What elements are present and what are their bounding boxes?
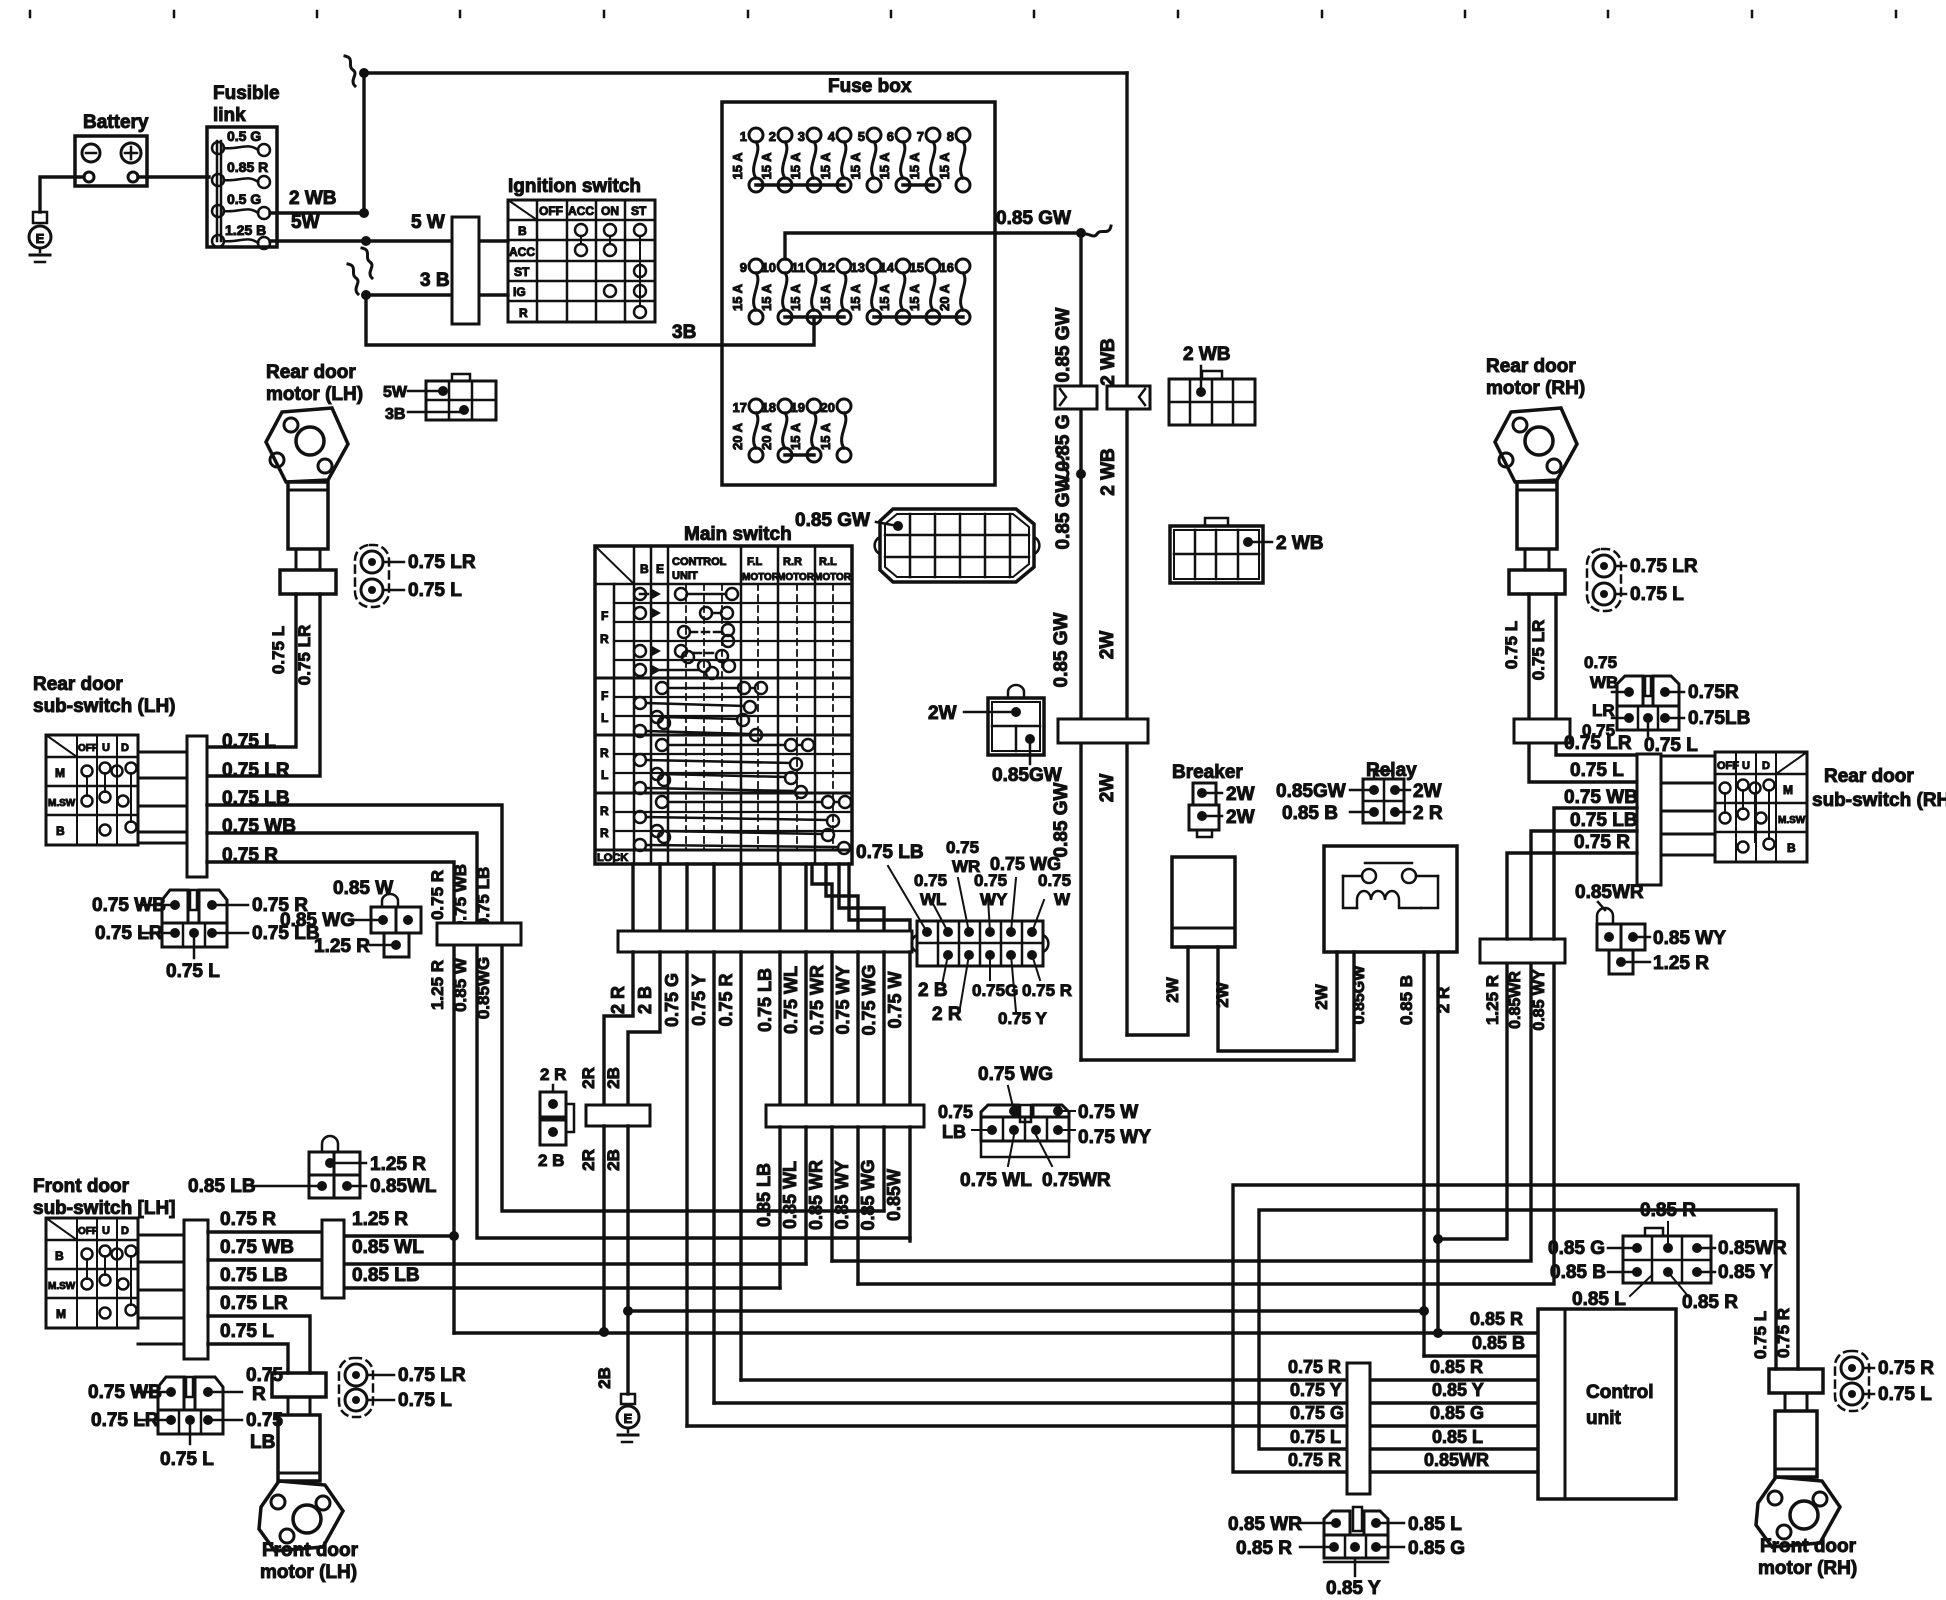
svg-text:0.85 WL: 0.85 WL	[352, 1237, 424, 1258]
svg-text:0.85 R: 0.85 R	[1430, 1357, 1483, 1377]
rear door sub-switch RH	[1715, 752, 1807, 862]
svg-text:0.85WG: 0.85WG	[474, 957, 493, 1019]
rear door motor RH	[1495, 408, 1577, 482]
inline connector 2WB	[1107, 386, 1150, 409]
fusible link element 3	[212, 205, 224, 217]
svg-text:15 A: 15 A	[907, 283, 922, 311]
svg-text:15 A: 15 A	[818, 422, 833, 450]
wire 0.75LR motor LH	[207, 594, 320, 776]
fusible link element 2	[212, 174, 224, 186]
svg-text:IG: IG	[513, 285, 526, 299]
fuse bus 1-4	[756, 183, 844, 187]
wire main switch 2 R to connector	[631, 864, 634, 931]
svg-text:2 B: 2 B	[635, 986, 655, 1014]
svg-text:2W: 2W	[928, 703, 957, 724]
svg-text:20 A: 20 A	[759, 422, 774, 450]
svg-text:motor (LH): motor (LH)	[266, 384, 363, 405]
wire main switch 0.75 W jog	[849, 864, 910, 931]
wire 0.85 WG below bar	[882, 1127, 885, 1210]
svg-text:ST: ST	[514, 265, 530, 279]
break curl 0.85GW mid	[1058, 456, 1068, 486]
svg-text:16: 16	[940, 260, 954, 275]
wire 2B jog down	[628, 952, 660, 1105]
svg-text:0.85 GW: 0.85 GW	[795, 510, 870, 531]
fuse bus 18-19	[785, 453, 814, 457]
svg-text:Front door: Front door	[1760, 1536, 1857, 1557]
wire main switch 2 B to connector	[658, 864, 661, 931]
wire run 0.85WY right	[858, 963, 1554, 1284]
fuse 13	[867, 259, 881, 273]
svg-text:0.85 WL: 0.85 WL	[780, 1161, 800, 1229]
wire fuse10 riser 0.85GW	[785, 233, 1081, 259]
svg-text:15 A: 15 A	[848, 152, 863, 180]
svg-text:15 A: 15 A	[937, 152, 952, 180]
relay connector	[1363, 779, 1404, 823]
svg-text:F: F	[601, 609, 608, 623]
wire 0.75L front LH	[208, 1344, 288, 1373]
svg-text:OFF: OFF	[78, 743, 98, 754]
svg-text:15 A: 15 A	[877, 152, 892, 180]
svg-text:15 A: 15 A	[788, 152, 803, 180]
connector 3pin rear RH	[1617, 676, 1643, 706]
wire loop R2 control to motorRH L	[1259, 1210, 1776, 1449]
svg-text:0.75 L: 0.75 L	[160, 1449, 214, 1470]
svg-text:2B: 2B	[604, 1149, 623, 1171]
wire main switch 0.75 R to connector	[739, 864, 742, 931]
node 0.85GW junction	[1076, 228, 1086, 238]
svg-text:D: D	[121, 742, 129, 754]
svg-text:2W: 2W	[1226, 784, 1255, 805]
svg-text:0.75 L: 0.75 L	[166, 961, 220, 982]
wire 2R jog down	[604, 952, 633, 1105]
connector pair front LH	[339, 1358, 373, 1417]
wire breaker 2W right	[1218, 947, 1337, 1051]
svg-text:5W: 5W	[383, 384, 408, 401]
svg-text:L: L	[601, 768, 608, 782]
svg-text:0.75 L: 0.75 L	[1290, 1427, 1341, 1447]
svg-text:E: E	[36, 231, 45, 246]
svg-text:2 R: 2 R	[1413, 803, 1443, 824]
svg-text:2W: 2W	[1163, 976, 1182, 1002]
svg-text:sub-switch (LH): sub-switch (LH)	[33, 696, 176, 717]
svg-text:2 WB: 2 WB	[1183, 344, 1231, 365]
fuse 17	[749, 399, 763, 413]
svg-text:R: R	[600, 804, 609, 818]
svg-text:0.75 Y: 0.75 Y	[998, 1009, 1048, 1028]
svg-text:Battery: Battery	[83, 112, 149, 133]
wire link 1.25R-2R	[1438, 963, 1507, 1239]
wire 0.85 WY vertical	[856, 952, 859, 1105]
wire 0.85W below bar	[908, 1127, 911, 1241]
fuse 5	[867, 128, 881, 142]
svg-text:0.85 G: 0.85 G	[1548, 1238, 1605, 1259]
svg-text:0.75 WB: 0.75 WB	[222, 816, 296, 837]
svg-text:15 A: 15 A	[818, 283, 833, 311]
svg-text:0.75 LB: 0.75 LB	[1570, 810, 1638, 831]
fuse 16	[956, 259, 970, 273]
svg-text:0.75 G: 0.75 G	[1290, 1403, 1344, 1423]
svg-text:E: E	[624, 1411, 633, 1426]
svg-text:15 A: 15 A	[788, 283, 803, 311]
wire main switch 0.75 WG jog	[839, 864, 884, 931]
wire stub sub-switch RH	[1661, 833, 1715, 836]
svg-text:5: 5	[858, 129, 865, 144]
wire 2B below bar3	[626, 1126, 629, 1394]
wire 0.85 WL vertical	[804, 952, 807, 1105]
svg-text:0.75: 0.75	[914, 871, 947, 890]
svg-text:15 A: 15 A	[730, 283, 745, 311]
svg-text:20: 20	[821, 400, 835, 415]
fuse 3	[807, 128, 821, 142]
svg-text:2W: 2W	[1312, 983, 1331, 1009]
svg-text:0.5 G: 0.5 G	[227, 191, 261, 207]
wire 0.75WB rear RH	[1554, 808, 1637, 939]
fuse 14	[896, 259, 910, 273]
main switch contacts	[634, 588, 646, 600]
svg-text:OFF: OFF	[539, 204, 563, 218]
svg-text:0.75 G: 0.75 G	[662, 973, 682, 1027]
svg-text:0.85 GW: 0.85 GW	[1053, 474, 1074, 549]
wire 0.75G run to control	[687, 1424, 1538, 1427]
svg-text:12: 12	[821, 260, 835, 275]
svg-text:8: 8	[947, 129, 954, 144]
ignition switch contacts	[575, 224, 587, 236]
svg-text:B: B	[518, 224, 527, 238]
svg-text:MOTOR: MOTOR	[742, 572, 780, 583]
svg-text:D: D	[121, 1225, 129, 1237]
svg-text:0.85 B: 0.85 B	[1472, 1333, 1525, 1353]
svg-text:R: R	[600, 632, 609, 646]
wire main switch 0.75 WR jog	[812, 864, 832, 931]
connector 2W	[988, 698, 1044, 755]
svg-text:3B: 3B	[385, 406, 405, 423]
svg-text:motor (RH): motor (RH)	[1486, 378, 1585, 399]
node 0.85GW mid junction	[1076, 469, 1086, 479]
connector 1.25R/0.85LB/WL	[322, 1136, 338, 1152]
wire battery positive to fusible link	[138, 175, 209, 178]
wire 2R below bar3	[602, 1126, 605, 1332]
svg-text:0.75 LR: 0.75 LR	[295, 625, 314, 685]
connector 2WB upper	[1169, 379, 1255, 425]
svg-text:UNIT: UNIT	[672, 570, 698, 582]
tick marks top	[29, 11, 32, 17]
wire run 2B to relay	[628, 1309, 1424, 1312]
wire 5W to ignition switch	[452, 239, 508, 242]
connector bar rear LH lower	[437, 923, 521, 945]
svg-text:0.75 L: 0.75 L	[408, 580, 462, 601]
svg-text:0.75 R: 0.75 R	[1022, 981, 1072, 1000]
svg-text:2W: 2W	[1226, 807, 1255, 828]
node 1.25R junction left	[449, 1231, 459, 1241]
svg-text:20 A: 20 A	[730, 422, 745, 450]
svg-text:0.75 R: 0.75 R	[1574, 832, 1630, 853]
wire 0.85 WR below bar	[830, 1127, 833, 1261]
wire stub front sub-switch LH	[138, 1317, 184, 1320]
wire stub sub-switch LH	[138, 751, 187, 754]
wire main switch 0.75 WL to connector	[804, 864, 807, 931]
svg-text:0.75 LB: 0.75 LB	[220, 1265, 288, 1286]
svg-text:M: M	[1783, 783, 1793, 797]
svg-text:0.75 R: 0.75 R	[1288, 1357, 1341, 1377]
svg-text:10: 10	[762, 260, 776, 275]
wire run 0.85WG	[502, 945, 884, 1211]
svg-text:0.75 WL: 0.75 WL	[781, 966, 801, 1034]
wire 0.85 WG vertical	[882, 952, 885, 1105]
wire stub sub-switch RH	[1661, 854, 1715, 857]
svg-text:0.85 LB: 0.85 LB	[352, 1265, 420, 1286]
wire stub sub-switch RH	[1661, 755, 1715, 758]
svg-text:0.75 L: 0.75 L	[269, 626, 288, 674]
svg-text:1.25 R: 1.25 R	[428, 960, 447, 1010]
ground E (main)	[621, 1394, 635, 1404]
svg-text:1.25 R: 1.25 R	[1653, 953, 1709, 974]
svg-text:0.85WR: 0.85WR	[1507, 971, 1524, 1029]
connector 12pin	[917, 921, 1043, 966]
wire stub sub-switch LH	[138, 842, 187, 845]
connector bar 2R/2B	[586, 1105, 650, 1126]
connector bar rear RH	[1637, 754, 1661, 885]
wire 0.75R front LH	[208, 1230, 322, 1233]
svg-text:0.85 WY: 0.85 WY	[1653, 928, 1726, 949]
svg-text:0.75 LR: 0.75 LR	[1630, 556, 1698, 577]
wire run 0.85LB long	[344, 1286, 780, 1289]
wire 3B down and to fuse box	[366, 295, 814, 345]
svg-text:0.75 WB: 0.75 WB	[220, 1237, 294, 1258]
connector bar GW/2W	[1058, 719, 1148, 743]
svg-text:0.75 WB: 0.75 WB	[451, 864, 470, 930]
svg-text:0.5 G: 0.5 G	[227, 128, 261, 144]
node A junction	[359, 208, 369, 218]
svg-text:2: 2	[769, 129, 776, 144]
wire 0.75LB rear RH	[1531, 831, 1637, 939]
svg-text:F.L: F.L	[747, 556, 763, 568]
svg-text:0.75 WR: 0.75 WR	[807, 965, 827, 1035]
svg-text:LR: LR	[1592, 701, 1615, 720]
svg-text:2W: 2W	[1413, 781, 1442, 802]
wire run 0.85WL	[344, 1262, 806, 1265]
wire 0.75R vertical	[739, 952, 742, 1380]
svg-text:0.75R: 0.75R	[1688, 682, 1739, 703]
connector 18pin main	[880, 509, 1034, 582]
svg-text:0.75 WB: 0.75 WB	[1564, 787, 1638, 808]
svg-text:U: U	[1742, 760, 1750, 772]
rear door motor LH	[266, 408, 348, 482]
svg-text:0.85 GW: 0.85 GW	[1051, 782, 1072, 857]
wire 0.75LB rear LH	[207, 805, 502, 923]
svg-text:0.85 R: 0.85 R	[227, 159, 268, 175]
connector pair rear RH	[1587, 549, 1621, 611]
svg-text:0.85 W: 0.85 W	[333, 878, 393, 899]
wire run 1.25R front	[344, 1234, 454, 1237]
svg-text:2 R: 2 R	[932, 1004, 962, 1025]
wire stub front sub-switch LH	[138, 1234, 184, 1237]
svg-text:B: B	[55, 1249, 64, 1263]
wire 0.85B vertical	[1422, 952, 1425, 1356]
svg-text:2 R: 2 R	[540, 1065, 566, 1084]
svg-text:15 A: 15 A	[759, 283, 774, 311]
fuse 6	[896, 128, 910, 142]
svg-text:CONTROL: CONTROL	[672, 556, 727, 568]
fusible link element 1	[212, 142, 224, 154]
svg-text:6: 6	[887, 129, 894, 144]
svg-text:0.85 B: 0.85 B	[1397, 975, 1416, 1025]
svg-text:14: 14	[880, 260, 895, 275]
svg-text:0.75 LR: 0.75 LR	[222, 760, 290, 781]
wire run 2R to control	[454, 1331, 1538, 1334]
svg-text:0.85 R: 0.85 R	[1640, 1200, 1696, 1221]
svg-text:0.75 Y: 0.75 Y	[1290, 1380, 1342, 1400]
fuse 11	[807, 259, 821, 273]
svg-text:0.85 Y: 0.85 Y	[1718, 1262, 1773, 1283]
svg-text:0.85 L: 0.85 L	[1432, 1427, 1483, 1447]
svg-text:0.85 B: 0.85 B	[1550, 1262, 1606, 1283]
svg-text:motor (LH): motor (LH)	[260, 1562, 357, 1583]
connector bar harness	[766, 1105, 924, 1127]
wire 0.85 WR vertical	[830, 952, 833, 1105]
connector 6pin control	[1623, 1236, 1711, 1283]
wire 0.75R rear LH	[207, 862, 454, 923]
svg-text:0.85 R: 0.85 R	[1236, 1538, 1292, 1559]
svg-text:0.85 WG: 0.85 WG	[280, 910, 355, 931]
control unit box	[1538, 1309, 1676, 1499]
svg-text:R: R	[600, 746, 609, 760]
connector 6pin front LH	[158, 1377, 184, 1410]
svg-text:W: W	[1054, 890, 1071, 909]
fuse bus 13-16	[874, 315, 963, 319]
front door sub-switch LH	[46, 1218, 138, 1328]
svg-text:0.75 Y: 0.75 Y	[689, 974, 709, 1026]
wire 0.85GW vertical	[1079, 233, 1082, 1060]
fuse 8	[956, 128, 970, 142]
svg-text:motor (RH): motor (RH)	[1758, 1558, 1857, 1579]
svg-text:Rear door: Rear door	[1486, 356, 1576, 377]
svg-text:0.85WL: 0.85WL	[370, 1176, 437, 1197]
front door motor LH	[272, 1373, 326, 1397]
svg-text:0.85WR: 0.85WR	[1424, 1450, 1489, 1470]
svg-text:0.75: 0.75	[938, 1102, 973, 1122]
main switch grid	[595, 546, 852, 864]
svg-text:Rear door: Rear door	[1824, 766, 1914, 787]
fuse 19	[807, 399, 821, 413]
wire stub sub-switch LH	[138, 777, 187, 780]
svg-text:0.85 W: 0.85 W	[451, 957, 470, 1012]
svg-text:0.75WR: 0.75WR	[1042, 1170, 1111, 1191]
wire 3B connector to node	[366, 293, 508, 296]
svg-text:Main switch: Main switch	[684, 524, 792, 545]
svg-text:0.85 LB: 0.85 LB	[188, 1176, 256, 1197]
svg-text:0.85 GW: 0.85 GW	[1051, 612, 1072, 687]
wire 1.25R vertical left	[452, 945, 455, 1333]
svg-text:3: 3	[798, 129, 805, 144]
svg-text:2 WB: 2 WB	[1098, 338, 1119, 386]
connector 8pin	[981, 1105, 1018, 1117]
inline connector 0.85GW	[1055, 386, 1097, 409]
node 1.25R junction right	[1433, 1234, 1443, 1244]
svg-text:D: D	[1762, 760, 1770, 772]
fuse 4	[837, 128, 851, 142]
svg-text:0.85 L: 0.85 L	[1572, 1289, 1626, 1310]
svg-text:2R: 2R	[579, 1067, 598, 1089]
svg-text:ON: ON	[601, 204, 619, 218]
svg-text:17: 17	[733, 400, 747, 415]
svg-text:0.75 W: 0.75 W	[885, 971, 905, 1028]
svg-text:0.85 WR: 0.85 WR	[806, 1160, 826, 1230]
svg-text:0.75 R: 0.75 R	[220, 1209, 276, 1230]
wire 0.75WB front LH	[208, 1258, 322, 1261]
svg-text:Front door: Front door	[262, 1540, 359, 1561]
svg-text:0.75 LB: 0.75 LB	[222, 788, 290, 809]
svg-text:0.75 WG: 0.75 WG	[859, 964, 879, 1035]
svg-text:2W: 2W	[1213, 981, 1232, 1007]
connector bar ignition	[452, 217, 479, 324]
svg-text:2W: 2W	[1097, 774, 1118, 803]
svg-text:15 A: 15 A	[877, 283, 892, 311]
connector bar rear LH	[187, 736, 207, 877]
wire 0.75WB rear LH	[207, 833, 477, 923]
svg-text:15 A: 15 A	[730, 152, 745, 180]
svg-text:E: E	[656, 562, 664, 576]
fuse 9	[749, 259, 763, 273]
connector pair front RH	[1835, 1351, 1869, 1411]
svg-text:3B: 3B	[672, 322, 696, 343]
ignition switch grid	[508, 200, 655, 322]
relay box	[1324, 846, 1457, 952]
svg-text:0.75 LB: 0.75 LB	[856, 842, 924, 863]
svg-text:0.85 G: 0.85 G	[1408, 1538, 1465, 1559]
svg-text:1.25 R: 1.25 R	[1483, 975, 1502, 1025]
svg-text:Ignition switch: Ignition switch	[508, 176, 641, 197]
svg-text:U: U	[102, 1225, 110, 1237]
svg-text:1.25 R: 1.25 R	[352, 1209, 408, 1230]
connector pair rear LH	[355, 545, 389, 607]
node 0.85B junction	[1419, 1306, 1429, 1316]
connector bar main switch	[618, 931, 912, 952]
svg-text:Fusible: Fusible	[213, 83, 280, 104]
node 2R/0.85R junction	[1433, 1328, 1443, 1338]
break curl 0.85GW	[1081, 226, 1111, 236]
svg-text:2 WB: 2 WB	[1276, 533, 1324, 554]
svg-text:0.85 B: 0.85 B	[1282, 803, 1338, 824]
svg-text:0.75 R: 0.75 R	[1774, 1308, 1793, 1358]
svg-text:Rear door: Rear door	[266, 362, 356, 383]
svg-text:0.85 WR: 0.85 WR	[1228, 1514, 1302, 1535]
wire 0.75R rear RH	[1507, 853, 1637, 939]
wire main switch 0.75 G to connector	[685, 864, 688, 931]
svg-text:WL: WL	[920, 890, 946, 909]
wire 0.85 LB vertical	[778, 952, 781, 1105]
svg-text:Front door: Front door	[33, 1176, 130, 1197]
svg-text:WB: WB	[1590, 673, 1618, 692]
svg-text:M.SW: M.SW	[48, 798, 76, 809]
svg-text:link: link	[213, 105, 246, 126]
svg-text:2B: 2B	[604, 1067, 623, 1089]
svg-text:2 WB: 2 WB	[1098, 448, 1119, 496]
svg-text:B: B	[640, 562, 649, 576]
wire 0.75G vertical	[685, 952, 688, 1426]
fuse 1	[749, 128, 763, 142]
svg-text:0.75 L: 0.75 L	[222, 731, 276, 752]
svg-text:9: 9	[740, 260, 747, 275]
fuse 12	[837, 259, 851, 273]
svg-text:1: 1	[740, 129, 747, 144]
svg-text:B: B	[56, 824, 65, 838]
svg-text:0.75 L: 0.75 L	[1878, 1384, 1932, 1405]
svg-text:0.85 R: 0.85 R	[1682, 1292, 1738, 1313]
svg-text:M.SW: M.SW	[1778, 815, 1806, 826]
svg-text:0.75 WY: 0.75 WY	[833, 965, 853, 1034]
svg-text:MOTOR: MOTOR	[777, 572, 815, 583]
svg-text:0.85 Y: 0.85 Y	[1326, 1578, 1381, 1599]
